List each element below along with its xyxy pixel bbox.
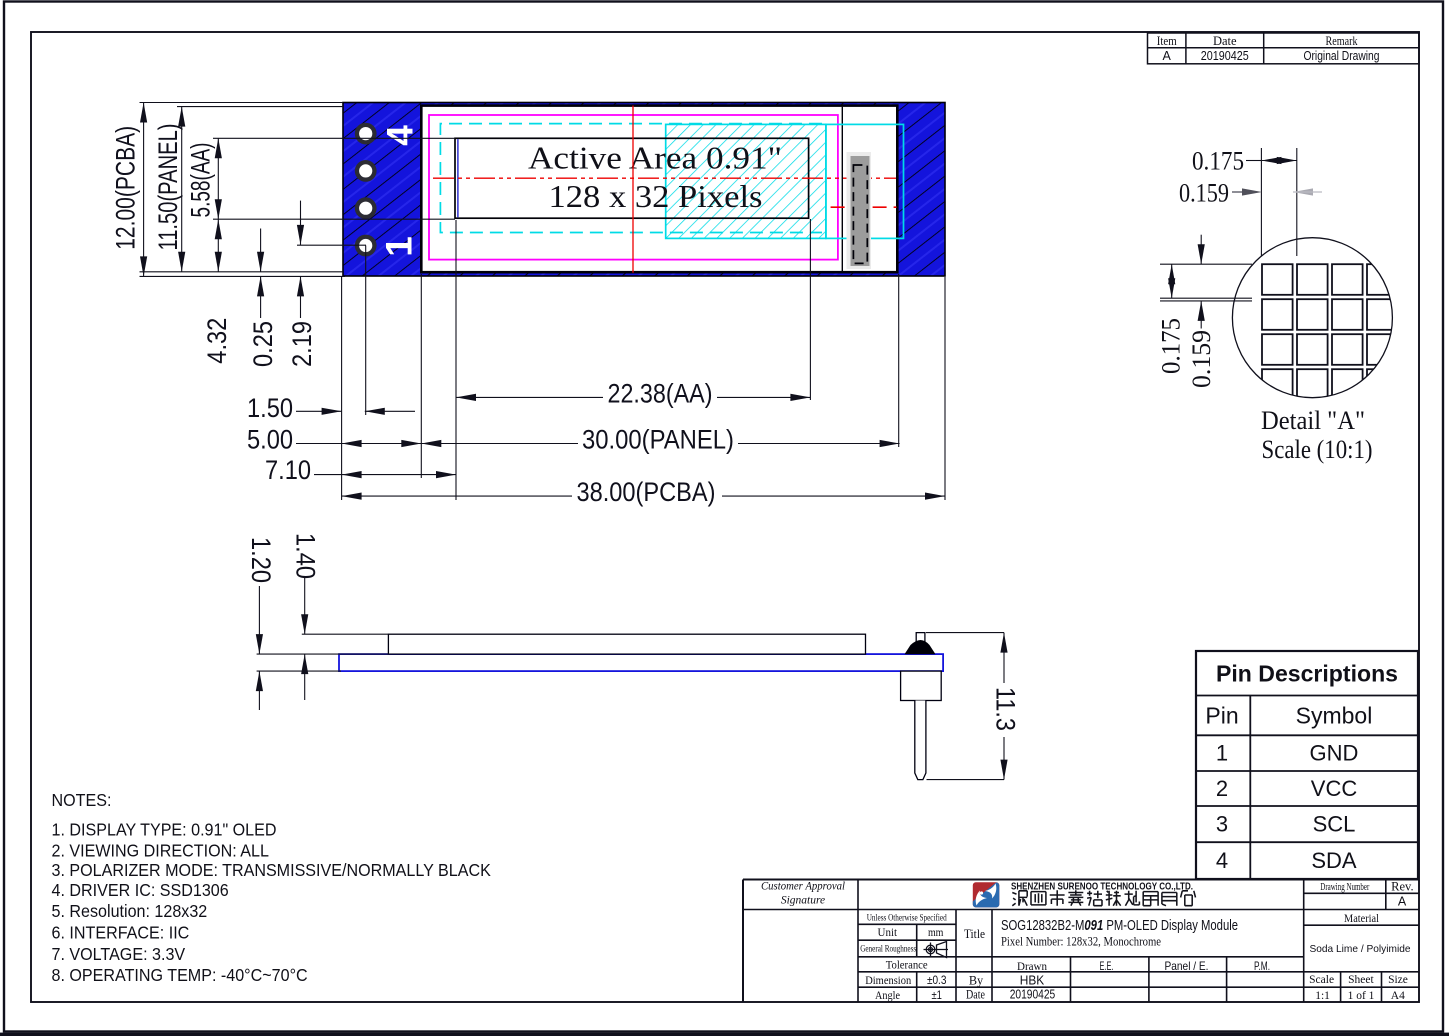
svg-text:General Roughness: General Roughness bbox=[860, 944, 916, 954]
company logo bbox=[973, 882, 1000, 907]
red centerlines bbox=[632, 106, 634, 273]
svg-text:5.58(AA): 5.58(AA) bbox=[186, 143, 216, 218]
connector body bbox=[901, 671, 942, 700]
svg-text:4. DRIVER IC: SSD1306: 4. DRIVER IC: SSD1306 bbox=[52, 880, 229, 900]
svg-text:0.159: 0.159 bbox=[1179, 179, 1229, 208]
svg-text:Soda Lime / Polyimide: Soda Lime / Polyimide bbox=[1310, 943, 1411, 955]
svg-text:GND: GND bbox=[1310, 741, 1359, 766]
svg-text:3: 3 bbox=[1216, 812, 1228, 837]
svg-text:HBK: HBK bbox=[1020, 973, 1045, 987]
panel internal edge bbox=[841, 107, 843, 271]
extension lines top/left bbox=[140, 102, 344, 104]
svg-text:1.50: 1.50 bbox=[247, 393, 293, 423]
svg-text:8. OPERATING TEMP: -40°C~70°C: 8. OPERATING TEMP: -40°C~70°C bbox=[52, 965, 308, 985]
svg-text:A: A bbox=[1163, 49, 1172, 63]
svg-text:Date: Date bbox=[966, 988, 985, 1002]
svg-text:30.00(PANEL): 30.00(PANEL) bbox=[582, 425, 734, 455]
svg-text:Item: Item bbox=[1157, 34, 1177, 48]
mounting holes bbox=[355, 123, 377, 257]
svg-text:Detail "A": Detail "A" bbox=[1261, 405, 1365, 435]
svg-text:Date: Date bbox=[1213, 34, 1237, 48]
roughness symbol bbox=[924, 942, 949, 958]
svg-text:Remark: Remark bbox=[1326, 34, 1359, 48]
svg-text:SCL: SCL bbox=[1313, 812, 1356, 837]
svg-text:0.175: 0.175 bbox=[1157, 318, 1186, 374]
svg-text:0.175: 0.175 bbox=[1192, 147, 1244, 176]
PCB board (blue, hatched) bbox=[343, 103, 945, 277]
svg-text:VCC: VCC bbox=[1311, 776, 1358, 801]
svg-text:Pin: Pin bbox=[1205, 703, 1238, 729]
svg-text:Active Area 0.91": Active Area 0.91" bbox=[528, 141, 782, 176]
svg-text:Rev.: Rev. bbox=[1391, 880, 1413, 894]
dims bbox=[259, 578, 1004, 780]
svg-text:Drawing Number: Drawing Number bbox=[1320, 882, 1369, 893]
solder bbox=[905, 640, 936, 654]
horizontal dims below module bbox=[296, 219, 945, 500]
IC zebra strip bbox=[847, 152, 872, 269]
cyan hatched region bbox=[666, 124, 826, 238]
svg-text:22.38(AA): 22.38(AA) bbox=[608, 378, 713, 408]
svg-text:12.00(PCBA): 12.00(PCBA) bbox=[111, 126, 141, 250]
svg-text:Panel / E.: Panel / E. bbox=[1165, 959, 1209, 973]
svg-text:6. INTERFACE: IIC: 6. INTERFACE: IIC bbox=[52, 923, 190, 943]
svg-text:3. POLARIZER MODE: TRANSMISSIV: 3. POLARIZER MODE: TRANSMISSIVE/NORMALLY… bbox=[52, 860, 492, 880]
svg-text:1 of 1: 1 of 1 bbox=[1348, 990, 1375, 1002]
cyan dashed viewing area bbox=[440, 124, 822, 233]
svg-text:Scale: Scale bbox=[1309, 974, 1334, 986]
svg-text:±1: ±1 bbox=[931, 990, 942, 1002]
svg-text:A4: A4 bbox=[1391, 990, 1405, 1002]
svg-text:Tolerance: Tolerance bbox=[886, 957, 928, 971]
magenta outline bbox=[429, 115, 838, 260]
active area rect bbox=[455, 138, 809, 218]
gray 0.159 dim bbox=[1232, 188, 1322, 195]
svg-text:Symbol: Symbol bbox=[1296, 703, 1373, 729]
5.00 + 30.00 bbox=[296, 443, 421, 445]
svg-text:4: 4 bbox=[380, 125, 421, 146]
svg-text:Customer Approval: Customer Approval bbox=[761, 881, 845, 893]
svg-text:4: 4 bbox=[1216, 848, 1228, 873]
svg-text:±0.3: ±0.3 bbox=[927, 975, 947, 987]
7.10 bbox=[314, 474, 456, 476]
svg-text:1: 1 bbox=[379, 236, 420, 257]
svg-text:2.19: 2.19 bbox=[287, 321, 317, 367]
svg-text:7. VOLTAGE: 3.3V: 7. VOLTAGE: 3.3V bbox=[52, 944, 186, 964]
svg-text:20190425: 20190425 bbox=[1201, 49, 1249, 63]
svg-text:SOG12832B2-M091 PM-OLED Displa: SOG12832B2-M091 PM-OLED Display Module bbox=[1001, 918, 1238, 934]
svg-text:Unit: Unit bbox=[878, 925, 898, 939]
svg-text:4.32: 4.32 bbox=[202, 318, 232, 364]
svg-text:1.40: 1.40 bbox=[291, 533, 321, 579]
svg-text:2: 2 bbox=[1216, 776, 1228, 801]
svg-text:Size: Size bbox=[1388, 974, 1408, 986]
svg-text:0.159: 0.159 bbox=[1187, 330, 1216, 388]
svg-text:Dimension: Dimension bbox=[865, 973, 911, 987]
pin bbox=[915, 701, 926, 780]
svg-text:Scale (10:1): Scale (10:1) bbox=[1262, 434, 1373, 464]
svg-text:P.M.: P.M. bbox=[1254, 959, 1270, 973]
svg-text:11.50(PANEL): 11.50(PANEL) bbox=[153, 124, 183, 251]
rotated dim labels bbox=[111, 124, 318, 368]
svg-text:NOTES:: NOTES: bbox=[52, 790, 112, 810]
CJK company name (pseudo glyphs) bbox=[1012, 890, 1195, 905]
svg-text:1.20: 1.20 bbox=[246, 537, 276, 583]
cyan outline right part bbox=[826, 124, 904, 238]
svg-text:Angle: Angle bbox=[875, 988, 900, 1002]
svg-text:Original Drawing: Original Drawing bbox=[1304, 49, 1380, 63]
1.50 bbox=[296, 410, 342, 412]
svg-text:Title: Title bbox=[964, 927, 985, 941]
svg-text:SDA: SDA bbox=[1311, 848, 1357, 873]
svg-text:Sheet: Sheet bbox=[1348, 974, 1374, 986]
svg-text:Unless Otherwise Specified: Unless Otherwise Specified bbox=[867, 913, 947, 923]
svg-text:1. DISPLAY TYPE: 0.91" OLED: 1. DISPLAY TYPE: 0.91" OLED bbox=[52, 820, 277, 840]
svg-text:Material: Material bbox=[1344, 913, 1379, 925]
svg-text:5. Resolution: 128x32: 5. Resolution: 128x32 bbox=[52, 901, 208, 921]
svg-text:38.00(PCBA): 38.00(PCBA) bbox=[577, 477, 716, 507]
svg-text:1: 1 bbox=[1216, 741, 1228, 766]
glass panel bbox=[421, 106, 897, 273]
svg-text:2. VIEWING DIRECTION: ALL: 2. VIEWING DIRECTION: ALL bbox=[52, 841, 269, 861]
pin top bbox=[916, 633, 925, 646]
svg-text:5.00: 5.00 bbox=[247, 425, 293, 455]
svg-text:A: A bbox=[1398, 895, 1407, 909]
svg-text:Pin Descriptions: Pin Descriptions bbox=[1216, 661, 1398, 687]
22.38 bbox=[456, 396, 603, 398]
svg-text:E.E.: E.E. bbox=[1100, 959, 1114, 973]
svg-text:7.10: 7.10 bbox=[265, 455, 311, 485]
svg-text:Drawn: Drawn bbox=[1017, 959, 1047, 973]
svg-text:Pixel Number: 128x32, Monochro: Pixel Number: 128x32, Monochrome bbox=[1001, 933, 1161, 948]
svg-text:Signature: Signature bbox=[781, 895, 825, 907]
vertical dim lines bbox=[143, 103, 145, 277]
svg-text:128 x 32 Pixels: 128 x 32 Pixels bbox=[549, 179, 763, 214]
svg-text:0.25: 0.25 bbox=[248, 321, 278, 367]
svg-text:20190425: 20190425 bbox=[1010, 988, 1056, 1002]
svg-text:By: By bbox=[969, 973, 984, 987]
svg-text:11.3: 11.3 bbox=[991, 687, 1021, 731]
38.00 bbox=[342, 495, 572, 497]
svg-text:mm: mm bbox=[928, 925, 944, 939]
svg-text:1:1: 1:1 bbox=[1315, 990, 1330, 1002]
